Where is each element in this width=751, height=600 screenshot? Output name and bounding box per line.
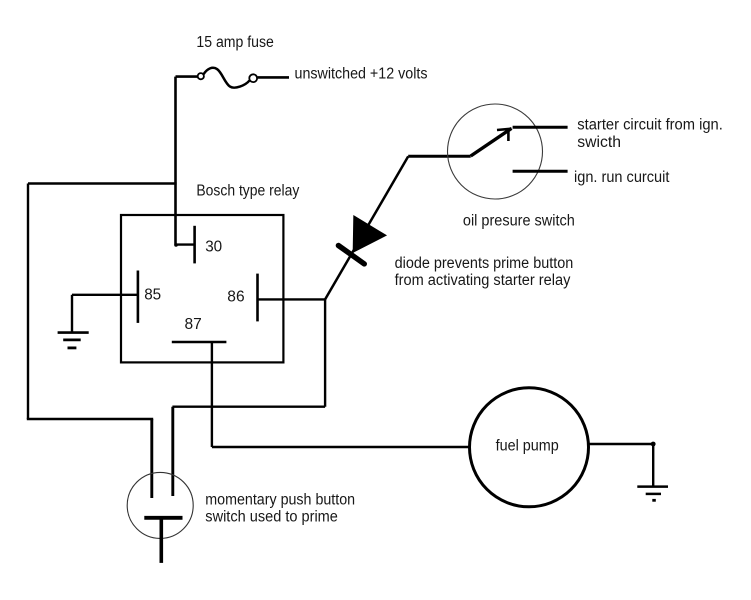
diode D1 cathode bar [338,246,364,264]
svg-text:starter circuit from ign.: starter circuit from ign. [577,116,723,133]
node: dot at pin 30 wire end [174,243,178,247]
wire: vertical down to push button right terminal [171,407,174,496]
wire: pin 85 to ground [72,294,138,296]
svg-text:87: 87 [185,316,202,333]
ground G2 bar 1 [637,485,668,488]
svg-text:85: 85 [144,287,161,304]
fuse F1 wavy element [204,68,250,88]
svg-text:ign. run curcuit: ign. run curcuit [574,169,670,186]
svg-text:momentary push button: momentary push button [205,491,355,508]
ground G1 bar 1 [58,331,89,334]
pin 30 horizontal lead [176,243,195,245]
ground G1 bar 2 [63,338,80,341]
svg-text:fuel pump: fuel pump [496,438,559,455]
wire: ground drop vertical [652,444,654,487]
svg-text:diode prevents prime button: diode prevents prime button [395,255,574,272]
node: corner dot at ground drop [651,442,656,447]
wire: vertical drop from fuse to relay pin 30 [174,77,177,245]
svg-text:unswitched +12 volts: unswitched +12 volts [295,66,428,83]
svg-text:oil presure switch: oil presure switch [463,213,575,230]
svg-text:15 amp fuse: 15 amp fuse [196,34,274,51]
wire: loop left vertical [27,184,29,420]
svg-text:30: 30 [205,239,222,256]
wire: pin 87 vertical drop [211,342,213,447]
fuse F1 right terminal circle [249,74,257,82]
contact: starter circuit stub [513,126,568,129]
ground G1 stem [71,295,73,333]
svg-text:swicth: swicth [577,134,621,151]
svg-text:from activating starter relay: from activating starter relay [395,272,571,289]
wire: horizontal to push button right branch [172,406,325,408]
wire: loop bottom horizontal [27,418,153,420]
fuel pump M1 body circle [470,388,589,507]
pin 30 contact bar [193,226,196,264]
wire: fuse to unswitched +12 volts stub [258,76,289,79]
push button S2 body circle [127,472,193,538]
pin 87 contact bar [172,341,227,344]
oil pressure switch arm arrowhead barb down [507,130,510,141]
push button S2 actuator stem [160,518,164,563]
wire: horizontal into oil pressure switch [408,155,471,158]
svg-text:86: 86 [227,289,244,306]
push button S2 contact bar [144,516,182,520]
wire: pin 87 to fuel pump horizontal [212,446,470,448]
fuse F1 (15 amp) left terminal circle [198,73,204,79]
diode D1 triangle [354,217,385,252]
pin 85 contact bar [137,271,140,323]
svg-text:Bosch type relay: Bosch type relay [196,182,299,199]
wire: fuel pump to ground horizontal [589,443,653,445]
wire: pin 86 to diode junction [258,298,326,300]
oil pressure switch S1 arm [471,128,512,156]
pin 86 contact bar [256,274,259,322]
svg-text:switch used to prime: switch used to prime [205,509,338,526]
oil pressure switch arm arrowhead barb left [497,129,512,130]
ground G1 bar 3 [68,346,77,349]
wire: junction vertical below diode node [324,299,326,406]
ground G2 bar 2 [646,493,661,496]
wire: diagonal from junction through diode to oil switch [325,156,408,299]
wire: vertical down to push button left terminal [150,419,153,498]
oil pressure switch S1 body circle [448,104,543,199]
wire: +12V feed horizontal into fuse [176,75,199,78]
relay K1 body (Bosch type relay box) [121,215,283,362]
ground G2 bar 3 [652,499,656,502]
contact: ign. run stub [513,170,568,173]
wire: loop top horizontal [28,182,177,184]
